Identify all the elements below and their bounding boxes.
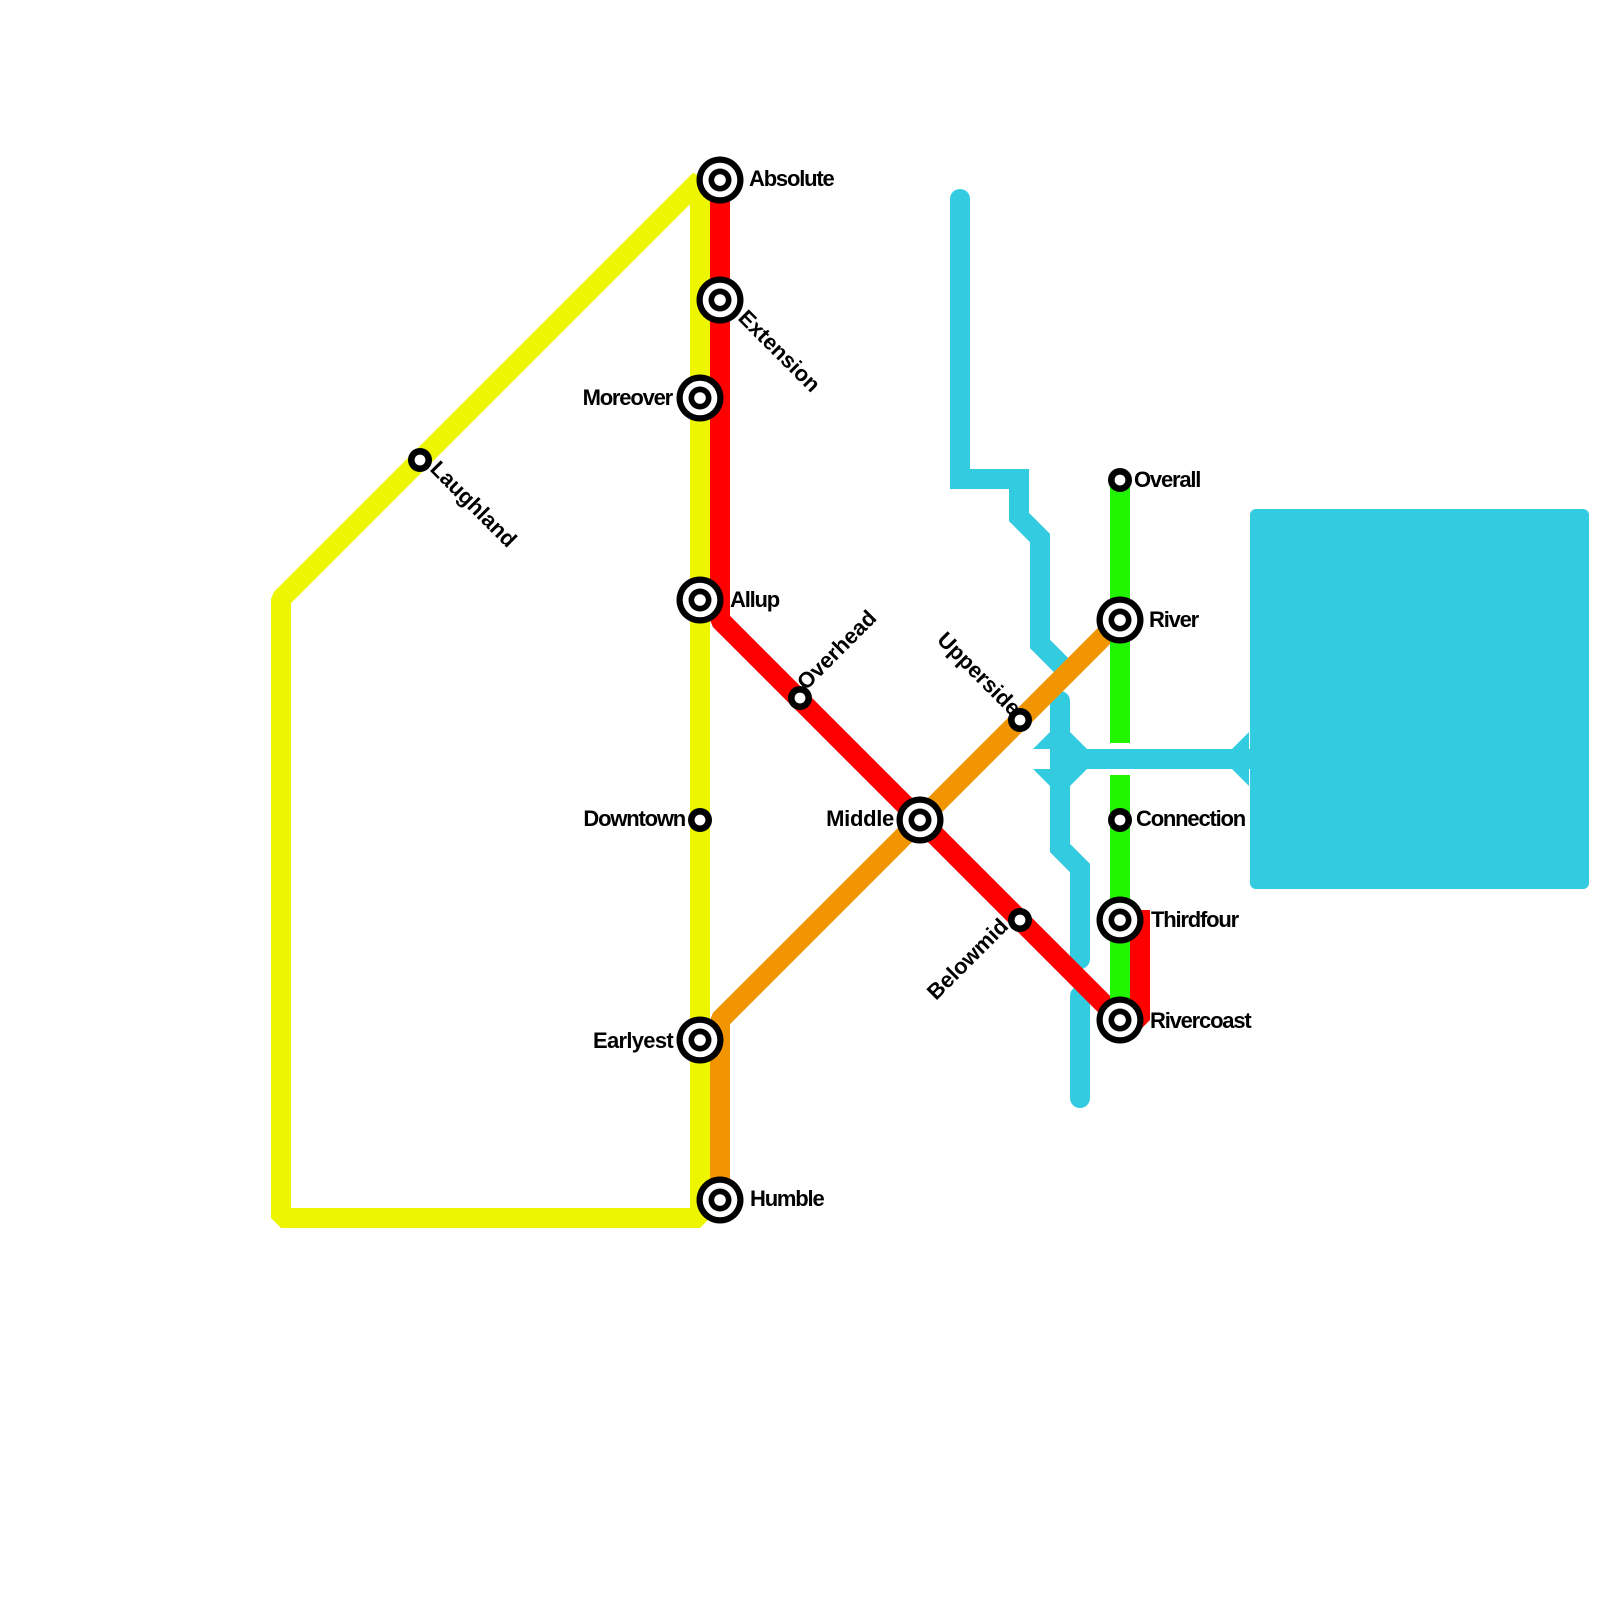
- channel junction fillet lower-right: [1070, 769, 1087, 786]
- station Laughland (small): [408, 448, 432, 472]
- channel junction fillet upper-left: [1033, 732, 1050, 749]
- river middle course: [1060, 701, 1080, 959]
- lake: [1250, 509, 1589, 889]
- svg-text:River: River: [1149, 607, 1200, 632]
- station River (interchange): [1097, 597, 1144, 644]
- station Rivercoast (interchange): [1097, 997, 1144, 1044]
- station Overall (small): [1108, 468, 1132, 492]
- river patch at channel junction: [1050, 731, 1070, 787]
- yellow line loop: [281, 180, 700, 1218]
- lake junction fillet lower: [1232, 769, 1249, 786]
- svg-text:Earlyest: Earlyest: [593, 1028, 674, 1053]
- svg-text:Thirdfour: Thirdfour: [1151, 907, 1240, 932]
- river channel to lake: [1050, 749, 1256, 769]
- station Overhead (small): [788, 686, 812, 710]
- svg-text:Downtown: Downtown: [583, 806, 685, 831]
- svg-text:Humble: Humble: [750, 1186, 824, 1211]
- svg-text:Overall: Overall: [1134, 467, 1200, 492]
- river upper course: [960, 199, 1064, 668]
- orange line: [720, 620, 1120, 1200]
- svg-text:Rivercoast: Rivercoast: [1150, 1008, 1252, 1033]
- channel white casing over green: [1052, 743, 1248, 775]
- lake junction fillet upper: [1232, 732, 1249, 749]
- river lower course: [1070, 996, 1090, 1098]
- station Belowmid (small): [1008, 908, 1032, 932]
- station Middle (interchange): [897, 797, 944, 844]
- svg-text:Absolute: Absolute: [749, 166, 834, 191]
- svg-text:Allup: Allup: [730, 587, 780, 612]
- station Absolute (interchange): [697, 157, 744, 204]
- green line: [1110, 480, 1130, 1020]
- channel junction fillet upper-right: [1070, 732, 1087, 749]
- station Downtown (small): [688, 808, 712, 832]
- svg-text:Connection: Connection: [1136, 806, 1246, 831]
- station Extension (interchange): [697, 277, 744, 324]
- station Thirdfour (interchange): [1097, 897, 1144, 944]
- station Upperside (small): [1008, 708, 1032, 732]
- svg-text:Moreover: Moreover: [583, 385, 674, 410]
- svg-text:Middle: Middle: [826, 806, 894, 831]
- station Allup (interchange): [677, 577, 724, 624]
- station Moreover (interchange): [677, 375, 724, 422]
- red line: [720, 180, 1140, 1020]
- channel junction fillet lower-left: [1033, 769, 1050, 786]
- station Humble (interchange): [697, 1177, 744, 1224]
- station Connection (small): [1108, 808, 1132, 832]
- station Earlyest (interchange): [677, 1017, 724, 1064]
